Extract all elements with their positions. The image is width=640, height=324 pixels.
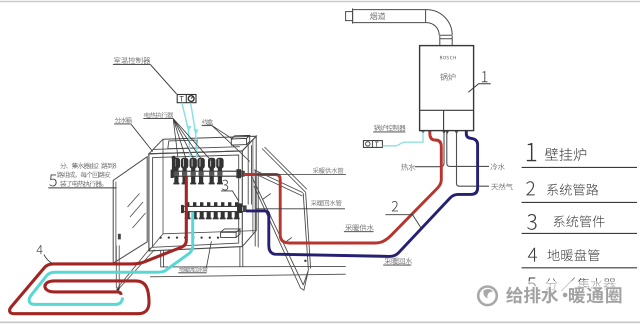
legend row3 number 3 bbox=[527, 214, 536, 230]
conduit down right wall bbox=[248, 145, 251, 204]
gas pipe + label 天然气 bbox=[457, 131, 490, 186]
lower manifold right fitting bbox=[237, 203, 242, 213]
note line1 bbox=[60, 163, 66, 169]
room thermostat label 室温控制器 bbox=[114, 57, 121, 64]
left door knob bbox=[118, 234, 121, 240]
niche left wall verticals bbox=[116, 245, 119, 288]
upper manifold bar bbox=[173, 171, 242, 176]
cabinet top front rail bbox=[153, 147, 240, 150]
bottom border line bbox=[0, 321, 640, 323]
boiler U1 outline bbox=[420, 46, 474, 131]
actuator label 电热执行器 bbox=[145, 112, 150, 118]
heating supply pipe (red) boiler to manifold bbox=[244, 131, 442, 243]
niche floor lines bbox=[161, 265, 346, 268]
upper manifold valve stubs bbox=[174, 176, 178, 183]
label 采暖回水 bbox=[384, 258, 391, 265]
thermostat control wires (cyan) bbox=[182, 103, 190, 157]
note line2 bbox=[57, 172, 63, 178]
cabinet front frame inner bbox=[153, 155, 239, 247]
legend row1 壁挂炉 bbox=[545, 148, 558, 160]
heating return pipe (blue) manifold to boiler bbox=[246, 131, 478, 256]
legend row2 number 2 bbox=[526, 181, 534, 195]
label 采暖回水管 bbox=[257, 208, 346, 210]
controller signal wire (cyan) bbox=[383, 132, 423, 146]
boiler brand text BOSCH bbox=[440, 56, 442, 59]
legend row4 地暖盘管 bbox=[548, 249, 560, 261]
small box on cabinet floor bbox=[221, 229, 240, 238]
thermostat leader bbox=[150, 65, 176, 94]
manifold actuators bbox=[173, 158, 180, 169]
note line3 bbox=[60, 181, 66, 187]
legend row1 number 1 bbox=[527, 143, 536, 161]
legend row5 number 5 bbox=[527, 278, 536, 292]
cabinet legs bbox=[161, 247, 243, 268]
lower manifold bar bbox=[183, 206, 243, 211]
lower manifold bottom stubs bbox=[186, 212, 190, 218]
floor pipe dots row bbox=[160, 237, 162, 239]
boiler bottom connection nubs bbox=[421, 131, 468, 134]
cold water pipe + label 冷水 bbox=[447, 131, 489, 166]
legend row2 系统管路 bbox=[547, 184, 558, 196]
wire box label 线盒 bbox=[202, 119, 208, 125]
flue vertical pipe bbox=[440, 36, 452, 46]
flue elbow bbox=[426, 10, 453, 39]
flue label 烟道 bbox=[370, 12, 377, 19]
thermostat box bbox=[177, 95, 196, 103]
watermark wash bbox=[463, 281, 640, 311]
watermark text 给排水·暖通圈 bbox=[506, 287, 621, 304]
boiler label 锅炉 bbox=[440, 73, 447, 80]
manifold air vent (left end) bbox=[172, 159, 175, 172]
callout number 1 bbox=[482, 71, 488, 82]
junction box on cabinet top bbox=[231, 135, 249, 145]
cabinet top face bbox=[149, 136, 256, 154]
boiler controller label 锅炉控制器 bbox=[374, 125, 380, 131]
callout 1 leader bbox=[468, 84, 491, 93]
cabinet interior back edges bbox=[149, 139, 256, 251]
callout number 4 bbox=[37, 245, 43, 254]
legend row5 分/集水器 bbox=[545, 278, 557, 290]
cabinet top notch bbox=[168, 140, 197, 149]
lower manifold left cap bbox=[181, 205, 184, 213]
top border line bbox=[0, 1, 640, 3]
right door swing lines bbox=[252, 178, 308, 291]
right door top edge bbox=[262, 147, 307, 192]
cabinet label 分水箱 bbox=[115, 117, 121, 123]
actuator fan leaders bbox=[173, 119, 178, 157]
right door panel bbox=[254, 170, 311, 270]
left door panel bbox=[113, 157, 147, 264]
upper manifold right fitting bbox=[236, 169, 241, 178]
legend row4 number 4 bbox=[528, 248, 537, 262]
flue end cap bbox=[346, 12, 353, 21]
right door hatching bbox=[263, 194, 292, 244]
callout number 3 bbox=[222, 180, 228, 191]
legend row3 系统管件 bbox=[554, 216, 565, 228]
pointer to floor pipes bbox=[117, 248, 155, 289]
label 采暖供水管 bbox=[257, 173, 347, 175]
callout number 5 bbox=[49, 175, 56, 187]
boiler controller box bbox=[363, 141, 382, 148]
callout number 2 bbox=[392, 201, 398, 211]
label 地暖供回水管 bbox=[206, 241, 211, 267]
cabinet right wall bbox=[242, 136, 256, 246]
left door hatching bbox=[128, 194, 146, 229]
floor coil return (cyan) bbox=[29, 212, 193, 305]
boiler divider bbox=[420, 109, 474, 111]
hot water pipe + label 热水 bbox=[415, 131, 444, 167]
lower manifold top tees bbox=[186, 202, 189, 206]
floor coil supply (red) bbox=[10, 177, 187, 314]
flue horizontal pipe bbox=[353, 10, 426, 23]
label 采暖供水 bbox=[345, 224, 352, 231]
cabinet front frame outer bbox=[149, 151, 242, 251]
watermark icon bbox=[478, 287, 497, 306]
